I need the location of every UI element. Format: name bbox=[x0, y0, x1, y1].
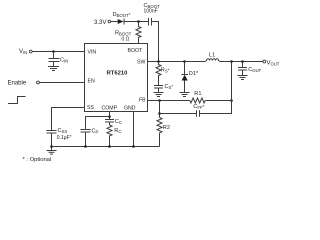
ground main bbox=[47, 151, 57, 155]
wire COMP drop bbox=[109, 112, 111, 120]
svg-text:VIN: VIN bbox=[88, 50, 97, 56]
wire R2 return to rail bbox=[134, 146, 160, 148]
node CFF left junction bbox=[158, 112, 161, 115]
enable step symbol bbox=[8, 97, 26, 104]
svg-text:0 Ω: 0 Ω bbox=[122, 37, 130, 43]
diode D1 bbox=[181, 62, 199, 93]
capacitor CS bbox=[154, 84, 173, 92]
capacitor CP bbox=[81, 128, 99, 146]
node FB divider junction bbox=[158, 99, 161, 102]
svg-text:VOUT: VOUT bbox=[267, 61, 280, 67]
node FB tap on VOUT line bbox=[230, 60, 233, 63]
svg-text:GND: GND bbox=[124, 106, 136, 112]
node CP rail junction bbox=[84, 145, 87, 148]
svg-text:RC: RC bbox=[114, 128, 121, 134]
svg-text:COMP: COMP bbox=[102, 106, 118, 112]
node COUT junction bbox=[241, 60, 244, 63]
wire CFF branch left bbox=[160, 113, 197, 115]
svg-text:EN: EN bbox=[88, 79, 95, 85]
node COMP junction bbox=[108, 115, 111, 118]
svg-text:DBOOT*: DBOOT* bbox=[113, 12, 131, 18]
svg-text:L1: L1 bbox=[209, 53, 215, 59]
wire SW line bbox=[148, 61, 206, 63]
wire SS to CSS bbox=[52, 108, 85, 131]
wire CFF branch right bbox=[200, 101, 232, 114]
ground CIN bbox=[48, 67, 59, 71]
svg-text:VIN: VIN bbox=[19, 49, 27, 55]
svg-text:* : Optional: * : Optional bbox=[23, 157, 52, 163]
svg-text:CC: CC bbox=[115, 119, 122, 125]
svg-text:RBOOT: RBOOT bbox=[115, 30, 132, 36]
node RC rail junction bbox=[108, 145, 111, 148]
wire R1 to riser bbox=[205, 100, 231, 102]
wire GND drop bbox=[133, 112, 135, 147]
capacitor CSS bbox=[47, 128, 72, 150]
svg-text:R2: R2 bbox=[163, 125, 170, 131]
resistor R1 bbox=[190, 91, 205, 103]
capacitor COUT bbox=[238, 62, 262, 76]
ground D1 bbox=[180, 93, 190, 97]
capacitor CFF bbox=[0, 0, 1, 1]
svg-text:R1: R1 bbox=[194, 91, 201, 97]
node 3.3V terminal bbox=[94, 20, 118, 26]
svg-text:3.3V: 3.3V bbox=[94, 20, 106, 26]
svg-text:SW: SW bbox=[137, 60, 145, 66]
resistor RS bbox=[156, 62, 170, 86]
svg-text:CSS: CSS bbox=[58, 128, 68, 134]
capacitor CC bbox=[105, 119, 122, 125]
wire FB line from IC bbox=[148, 100, 190, 102]
wire riser to VOUT line bbox=[231, 62, 233, 101]
wire FB node down bbox=[159, 101, 161, 118]
resistor RBOOT bbox=[115, 22, 141, 44]
ground COUT bbox=[238, 76, 248, 80]
capacitor CBOOT bbox=[144, 3, 161, 26]
node RBOOT junction bbox=[137, 20, 140, 23]
node CSS rail junction bbox=[50, 145, 53, 148]
svg-text:0.1µF*: 0.1µF* bbox=[57, 134, 72, 141]
node CIN junction bbox=[52, 50, 55, 53]
node D1 junction bbox=[183, 60, 186, 63]
inductor L1 bbox=[205, 53, 220, 62]
svg-text:BOOT: BOOT bbox=[128, 48, 144, 54]
wire COMP branch to CP bbox=[86, 117, 110, 130]
node VOUT terminal bbox=[263, 60, 280, 67]
svg-text:FB: FB bbox=[139, 97, 146, 103]
wire ground rail bbox=[52, 146, 160, 148]
svg-text:100nF: 100nF bbox=[144, 9, 158, 15]
node R1 right junction bbox=[230, 99, 233, 102]
wire CBOOT to SW node bbox=[152, 22, 159, 62]
svg-text:CP: CP bbox=[92, 128, 99, 134]
wire L1 to VOUT bbox=[220, 61, 263, 63]
diode DBOOT bbox=[113, 12, 149, 25]
op-amp U1 RT6210 IC body bbox=[85, 44, 148, 112]
svg-text:SS: SS bbox=[87, 105, 94, 111]
capacitor CFF body bbox=[193, 104, 204, 117]
node GND rail junction bbox=[132, 145, 135, 148]
resistor RC bbox=[107, 125, 121, 147]
node VIN terminal bbox=[19, 49, 85, 55]
resistor R2 bbox=[157, 118, 170, 147]
capacitor CIN bbox=[49, 52, 69, 67]
svg-text:D1*: D1* bbox=[189, 71, 199, 77]
node Enable terminal bbox=[8, 81, 85, 87]
svg-text:COUT: COUT bbox=[248, 67, 261, 73]
svg-text:RT6210: RT6210 bbox=[107, 71, 129, 77]
node SW junction bbox=[157, 60, 160, 63]
svg-text:Enable: Enable bbox=[8, 81, 27, 87]
svg-text:CIN: CIN bbox=[60, 57, 68, 63]
ground CS bbox=[154, 93, 164, 97]
